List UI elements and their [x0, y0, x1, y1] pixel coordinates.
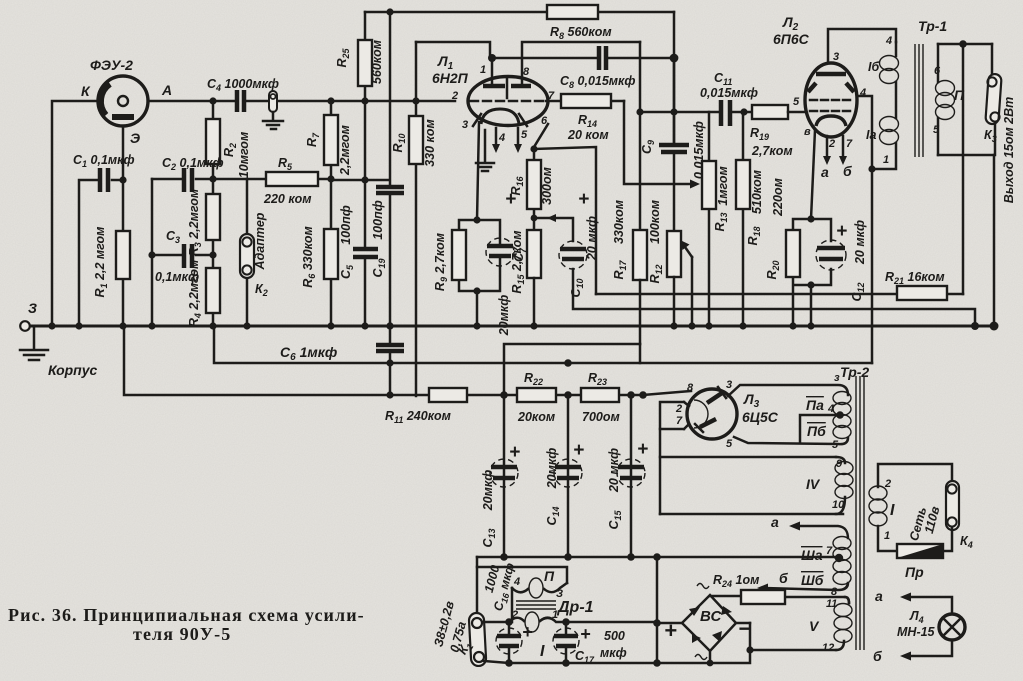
resistor R19	[752, 105, 788, 119]
R20 C12 parallel group	[793, 219, 831, 326]
wire: node to C8 to node A	[492, 57, 674, 60]
svg-text:Пб: Пб	[807, 423, 826, 439]
svg-text:220 ком: 220 ком	[263, 192, 312, 206]
svg-text:7: 7	[846, 138, 853, 150]
top rail	[365, 11, 674, 14]
wire: C10 bottom long return to right	[573, 269, 975, 326]
capacitor C16	[508, 622, 511, 663]
rail junction dots	[386, 322, 393, 329]
svg-text:Пр: Пр	[905, 564, 924, 580]
terminal З (open circle)	[20, 321, 30, 331]
svg-text:I: I	[890, 502, 895, 519]
winding IIa	[833, 392, 851, 405]
capacitor C15	[630, 395, 633, 557]
wire: input left	[52, 101, 98, 326]
choke Dr-1 core	[516, 601, 556, 609]
wire: anode to grid (signal wire)	[148, 100, 455, 103]
resistor R2	[212, 101, 215, 179]
capacitor C14	[567, 395, 570, 557]
svg-text:300ом: 300ом	[540, 167, 554, 205]
wire: E electrode down	[122, 126, 125, 180]
transformer Tr-1 primary	[895, 42, 898, 56]
svg-text:Др-1: Др-1	[556, 599, 594, 616]
connector К1 input	[469, 613, 487, 667]
resistor R13 (pot)	[708, 112, 711, 326]
svg-text:8: 8	[687, 382, 694, 394]
svg-text:I: I	[540, 643, 545, 660]
svg-text:510ком: 510ком	[750, 170, 764, 214]
svg-text:а: а	[771, 514, 779, 530]
svg-text:Тр-2: Тр-2	[840, 364, 869, 380]
resistor R6	[330, 179, 333, 326]
resistor R12 (pot)	[667, 231, 681, 277]
wire: pin4/primary vertical down to B+	[871, 169, 874, 363]
wire: top rail corner down to node	[673, 12, 676, 145]
wire: pin1 node to plate	[491, 58, 494, 84]
capacitor C17	[565, 622, 568, 663]
svg-text:6П6С: 6П6С	[773, 31, 810, 47]
svg-text:IV: IV	[806, 476, 821, 492]
svg-text:2: 2	[451, 90, 458, 102]
L2 cathode	[816, 116, 846, 126]
wire: pin8 up and over	[522, 42, 640, 84]
svg-text:З: З	[28, 300, 37, 316]
svg-text:ВС: ВС	[700, 608, 722, 625]
svg-text:А: А	[161, 82, 172, 98]
winding IIb	[833, 415, 851, 428]
Tr-2 core	[856, 376, 864, 650]
svg-text:б: б	[779, 570, 788, 586]
svg-text:100ком: 100ком	[648, 200, 662, 244]
lamp L4 MN-15	[939, 614, 965, 640]
wire: V winding bottom to bridge minus	[750, 649, 836, 652]
resistor R7	[330, 101, 333, 179]
svg-text:R4 2,2мгом R3 2,2мгом: R4 2,2мгом R3 2,2мгом	[187, 189, 203, 327]
resistor R20	[786, 230, 800, 277]
L2 anode plate	[816, 72, 846, 77]
capacitor C10 (electrolytic)	[559, 241, 587, 269]
svg-text:Шб: Шб	[801, 572, 824, 588]
svg-text:2,2мгом: 2,2мгом	[338, 125, 352, 176]
winding IV	[836, 457, 845, 463]
wire: pin6 diagonal to R16	[534, 124, 548, 147]
svg-text:2: 2	[828, 138, 835, 150]
svg-text:з: з	[834, 372, 840, 384]
svg-text:R9 2,7ком: R9 2,7ком	[433, 233, 449, 291]
resistor R3	[212, 179, 215, 255]
svg-text:а: а	[821, 164, 829, 180]
capacitor C3	[152, 254, 213, 257]
capacitor C19	[389, 12, 392, 326]
svg-text:П: П	[954, 87, 965, 103]
svg-text:Па: Па	[806, 397, 824, 413]
resistor R14	[546, 100, 624, 103]
Tr-1 core	[915, 44, 923, 157]
wire: R5/R6 node to C19	[331, 179, 388, 182]
capacitor C5	[364, 180, 367, 326]
resistor R9	[452, 230, 466, 280]
wire: L3 pins 2,7 connection box	[660, 402, 689, 429]
resistor R4	[212, 255, 215, 326]
wire: R11 feed line	[124, 326, 691, 395]
wire: C11 feed line	[640, 111, 719, 114]
wire: R10 top to pin1	[416, 42, 490, 58]
capacitor C9	[673, 58, 676, 231]
svg-text:12: 12	[822, 642, 834, 654]
svg-text:+: +	[573, 440, 584, 461]
svg-text:20 мкф: 20 мкф	[853, 220, 867, 265]
wire: C2/C3 left vertical	[151, 179, 154, 326]
svg-text:2: 2	[675, 403, 682, 415]
svg-text:1: 1	[552, 609, 558, 621]
wire: bridge left vertical	[656, 557, 659, 663]
wire: R21 right up to secondary top	[962, 42, 965, 294]
svg-text:Тр-1: Тр-1	[918, 18, 947, 34]
capacitor C11	[721, 100, 730, 126]
wire: IIb bottom to L3 cathode pin5	[734, 437, 848, 444]
svg-text:5: 5	[726, 438, 733, 450]
capacitor C12 (electrolytic)	[816, 240, 846, 270]
connector К2 adapter	[246, 179, 249, 326]
wire: left down to K1	[476, 557, 479, 616]
svg-text:б: б	[873, 648, 882, 664]
capacitor C2	[152, 178, 213, 181]
jack connector on signal wire	[269, 91, 277, 112]
svg-text:2: 2	[884, 478, 891, 490]
svg-text:1мгом: 1мгом	[716, 166, 730, 205]
tube U2 L2 6P6S	[805, 63, 857, 137]
resistor R11	[429, 388, 467, 402]
wire: bottom return line	[484, 623, 750, 663]
svg-text:R24 1ом: R24 1ом	[713, 573, 759, 589]
svg-text:Корпус: Корпус	[48, 362, 98, 378]
wire: L2 cathode down	[811, 130, 815, 219]
svg-text:1: 1	[884, 530, 890, 542]
svg-text:Ша: Ша	[801, 547, 823, 563]
node dots on R11 line	[500, 391, 508, 399]
photocell ФЭУ-2	[98, 76, 148, 126]
resistor R22	[517, 388, 556, 402]
svg-text:3: 3	[726, 379, 732, 391]
svg-text:К: К	[81, 83, 91, 99]
wire: L2 pin4 (screen) right and down	[857, 96, 872, 169]
winding IIIa with а arrow	[797, 526, 848, 538]
svg-text:8: 8	[523, 66, 530, 78]
svg-text:220ом: 220ом	[771, 178, 785, 217]
svg-text:Рис. 36. Принципиальная схема: Рис. 36. Принципиальная схема усили-	[8, 605, 365, 625]
resistor R8	[547, 5, 598, 19]
svg-text:2,7ком: 2,7ком	[751, 144, 793, 158]
wire: pin6 node to feedback line	[534, 147, 596, 294]
node A	[670, 54, 679, 63]
L1 grid (dashed)	[470, 100, 546, 103]
L2 screen ticks	[808, 83, 854, 92]
svg-text:20мкф: 20мкф	[481, 470, 495, 512]
svg-text:7: 7	[826, 545, 833, 557]
svg-text:+: +	[836, 221, 847, 242]
svg-text:10мгом: 10мгом	[237, 132, 251, 178]
svg-text:+: +	[509, 442, 520, 463]
svg-text:+: +	[522, 622, 533, 642]
svg-text:Iа: Iа	[866, 128, 876, 142]
svg-text:6Н2П: 6Н2П	[432, 70, 469, 86]
svg-text:ФЭУ-2: ФЭУ-2	[90, 57, 133, 73]
svg-text:5: 5	[793, 96, 800, 108]
svg-text:−: −	[738, 616, 751, 641]
capacitor C8	[599, 46, 606, 70]
svg-text:3: 3	[462, 119, 468, 131]
capacitor C4	[237, 90, 244, 112]
tube U1 L1 6N2P	[468, 77, 548, 126]
choke Dr-1 winding II	[477, 567, 567, 583]
resistor R23	[581, 388, 619, 402]
svg-text:20мкф: 20мкф	[545, 448, 559, 490]
svg-text:500: 500	[604, 629, 625, 643]
resistor R25	[364, 12, 367, 101]
wire A: R17 bottom to C13 top	[504, 344, 640, 395]
connector К3 output	[991, 44, 994, 76]
wire: IIa/IIb tap to heater pins	[800, 415, 836, 443]
wire: feedback line to R21	[596, 293, 897, 296]
svg-text:б: б	[843, 163, 852, 179]
svg-text:1: 1	[883, 154, 889, 166]
svg-text:20мкф: 20мкф	[497, 295, 511, 337]
transformer Tr-1 secondary П	[937, 44, 940, 82]
fuse Пр	[897, 544, 943, 558]
svg-text:П: П	[544, 568, 555, 584]
wire: R14 right down to pot arrow R13	[624, 101, 692, 184]
svg-text:1: 1	[480, 64, 486, 76]
svg-text:6: 6	[934, 65, 941, 77]
resistor R18	[742, 112, 745, 326]
tube U3 L3 6C5S rectifier	[687, 389, 737, 439]
svg-text:330 ком: 330 ком	[423, 119, 437, 167]
wire: L3 heater loop to winding IV	[659, 429, 662, 514]
svg-text:100пф: 100пф	[339, 205, 353, 245]
wire: bridge left to vertical	[657, 622, 682, 625]
wire: cathode pin3 down	[477, 122, 479, 220]
winding IIIb with б arrow	[833, 560, 851, 573]
mains winding I (Сеть)	[878, 464, 952, 487]
svg-text:Iб: Iб	[868, 60, 880, 74]
svg-text:5: 5	[933, 124, 940, 136]
svg-text:11: 11	[826, 598, 837, 610]
L2 grids dashed	[810, 99, 852, 102]
resistor R24	[710, 596, 849, 603]
wire: L2 plate pin3 to Tr-1 primary	[828, 29, 896, 63]
svg-text:9: 9	[836, 458, 843, 470]
choke Dr-1 winding I (on wire)	[483, 621, 657, 624]
svg-text:4: 4	[827, 403, 834, 415]
capacitor C7 (electrolytic)	[486, 238, 514, 266]
svg-text:4: 4	[513, 576, 520, 588]
svg-text:Адаптер: Адаптер	[253, 212, 267, 270]
svg-text:МН-15: МН-15	[897, 625, 936, 639]
svg-text:20 мкф: 20 мкф	[607, 448, 621, 493]
wire: bridge right corner	[736, 622, 750, 625]
svg-text:10: 10	[832, 499, 845, 511]
svg-text:теля 90У-5: теля 90У-5	[133, 624, 231, 644]
svg-text:+: +	[580, 624, 591, 644]
capacitor C1	[79, 180, 123, 326]
resistor R15	[527, 230, 541, 278]
wire: L3 pin3 to winding IIa	[728, 385, 848, 396]
connector К4	[946, 481, 959, 530]
svg-text:а: а	[875, 588, 883, 604]
svg-text:20 ком: 20 ком	[567, 128, 609, 142]
resistor R5	[213, 178, 331, 181]
ground under L1	[476, 130, 494, 171]
svg-text:Э: Э	[130, 130, 140, 146]
resistor R1	[122, 180, 125, 326]
svg-text:5: 5	[521, 129, 528, 141]
ground Корпус	[20, 328, 48, 360]
R12 wiper arrow to ground	[685, 247, 692, 257]
capacitor C13	[503, 395, 506, 557]
svg-text:6Ц5С: 6Ц5С	[742, 409, 779, 425]
L1 anode plates	[483, 84, 531, 89]
resistor R21 feedback	[947, 293, 963, 296]
wire: C13-C15 bottoms / heater supply line	[477, 556, 836, 559]
ground rail (bottom main)	[30, 325, 994, 328]
svg-text:330ком: 330ком	[612, 200, 626, 244]
svg-text:4: 4	[885, 35, 892, 47]
svg-text:+: +	[637, 439, 648, 460]
svg-text:0,015мкф: 0,015мкф	[700, 86, 758, 100]
svg-text:мкф: мкф	[600, 646, 627, 660]
winding V	[845, 597, 849, 603]
wire: R16/R15 tap to C10	[534, 218, 573, 241]
R9 C7 parallel group	[459, 220, 500, 326]
svg-text:2: 2	[511, 609, 518, 621]
L2 heater arrows	[827, 136, 843, 158]
svg-text:20ком: 20ком	[517, 410, 555, 424]
secondary top/bottom wires	[938, 44, 994, 155]
svg-text:3: 3	[833, 51, 839, 63]
svg-text:+: +	[578, 189, 589, 210]
svg-text:7: 7	[676, 415, 683, 427]
svg-text:20 мкф: 20 мкф	[585, 216, 599, 261]
wire: secondary bottom down to rail	[993, 155, 996, 326]
L1 heater arrows pins 4,5	[496, 128, 518, 146]
resistor R17	[633, 230, 647, 280]
L1 cathode	[481, 109, 519, 124]
wire: x640 vertical (R17 branch)	[639, 42, 642, 230]
svg-text:R21 16ком: R21 16ком	[885, 270, 945, 286]
resistor R10	[415, 42, 418, 396]
capacitor C6	[376, 345, 404, 351]
bridge rectifier BC	[682, 595, 736, 651]
ground under jack	[263, 112, 283, 129]
svg-text:100пф: 100пф	[371, 200, 385, 240]
svg-text:Выход 15ом 2Вт: Выход 15ом 2Вт	[1002, 97, 1016, 204]
svg-text:4: 4	[498, 132, 505, 144]
resistor R16	[533, 149, 536, 230]
wire: bridge bottom stub	[709, 651, 712, 663]
svg-text:в: в	[804, 126, 811, 138]
svg-text:560ком: 560ком	[370, 40, 384, 84]
wire: B+ line (C6 rail)	[214, 326, 872, 363]
svg-text:700ом: 700ом	[582, 410, 620, 424]
